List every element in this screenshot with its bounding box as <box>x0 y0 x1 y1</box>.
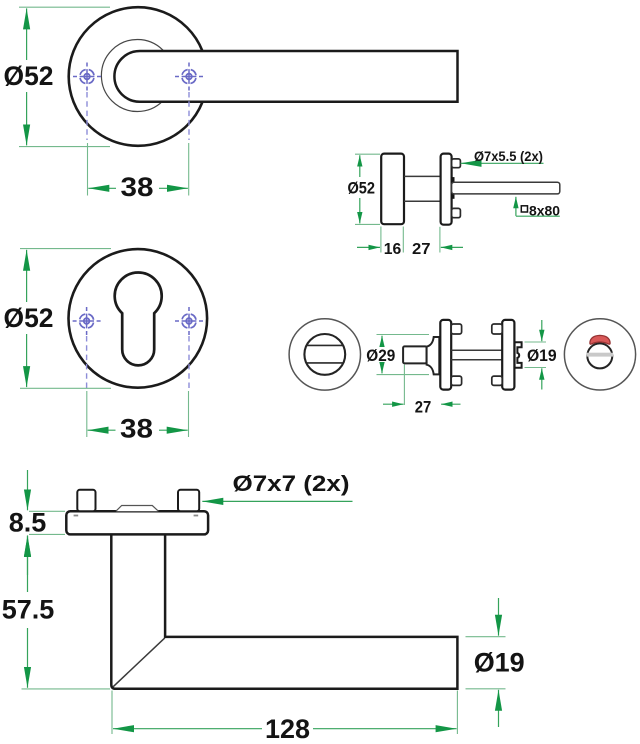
dimension 57.5 arrows <box>27 536 29 592</box>
rose outer circle <box>69 7 208 146</box>
screw mark right (escutcheon) <box>175 307 203 335</box>
svg-text:Ø52: Ø52 <box>347 179 375 197</box>
screw mark right (blue centre symbol) <box>175 63 203 91</box>
dimension Ø52 (view B) extension lines <box>355 153 380 155</box>
dimension 8.5 extension lines <box>29 510 65 512</box>
svg-text:Ø19: Ø19 <box>474 648 525 678</box>
wc rose plate right <box>502 320 514 390</box>
screw boss bottom <box>452 208 461 217</box>
spindle mound <box>116 506 158 512</box>
spindle bar <box>452 182 560 194</box>
handle neck and lever tube <box>111 534 457 689</box>
svg-text:128: 128 <box>265 714 310 744</box>
rose inner collar circle <box>101 40 173 112</box>
dimension 16/27 extension lines <box>380 227 382 253</box>
dimension 128 extension lines <box>111 691 113 735</box>
wc spindle lines <box>451 349 502 351</box>
dimension 27 (wc) extension line <box>403 365 405 406</box>
svg-text:27: 27 <box>412 241 431 258</box>
wc boss top-right plate <box>492 324 502 334</box>
escutcheon outer circle <box>69 249 208 388</box>
leader 8x80 underline <box>516 215 560 217</box>
thumbturn slot lines <box>307 344 343 346</box>
indicator inner circle <box>587 343 612 368</box>
thumbturn outer circle <box>289 319 360 390</box>
wc rose plate left <box>440 320 451 390</box>
dimension 38 (view A) arrows <box>88 187 116 189</box>
svg-text:27: 27 <box>415 398 432 416</box>
svg-text:38: 38 <box>120 414 153 444</box>
indicator grey slot <box>587 353 613 357</box>
blue dashed drop left (escutcheon) <box>86 336 88 388</box>
dimension 27 (wc) arrows <box>383 403 404 405</box>
rose disc side <box>381 154 404 225</box>
dimension 8.5 arrows <box>27 470 29 510</box>
blue dashed drop line left <box>86 92 88 140</box>
dimension 57.5 bottom extension <box>22 688 111 690</box>
screw mark left (escutcheon) <box>73 307 101 335</box>
square symbol <box>521 206 527 212</box>
svg-text:57.5: 57.5 <box>2 595 55 625</box>
dimension 128 arrows <box>113 728 262 730</box>
dimension 27 arrow <box>441 246 463 248</box>
dimension Ø29 extension lines <box>377 334 430 336</box>
indicator outer circle <box>564 319 635 390</box>
dimension 16 arrow <box>357 246 380 248</box>
wc boss bottom-left plate <box>451 376 461 385</box>
dimension Ø19 (wc) extension lines <box>525 341 547 343</box>
boss right (edge view) <box>178 490 199 512</box>
dimension Ø52 (view A) extension lines <box>19 6 110 8</box>
neck lines <box>404 175 441 177</box>
rose plate (edge view) <box>66 511 208 534</box>
thumbturn grip (side) <box>403 346 427 363</box>
svg-text:38: 38 <box>121 172 154 202</box>
euro profile cylinder hole <box>115 272 162 365</box>
svg-text:8x80: 8x80 <box>529 202 560 218</box>
dimension Ø52 (view A) arrows <box>26 8 28 60</box>
lever grip (stadium shape) <box>114 51 457 102</box>
svg-text:8.5: 8.5 <box>9 508 47 538</box>
spindle hub dark fill bottom <box>451 193 455 199</box>
plate mark right <box>194 515 199 517</box>
leader Ø7x7 line <box>202 500 352 502</box>
svg-text:Ø52: Ø52 <box>4 303 54 333</box>
svg-text:Ø52: Ø52 <box>4 61 54 91</box>
spindle hub dark fill top <box>451 177 455 183</box>
svg-text:Ø29: Ø29 <box>366 347 395 365</box>
dimension Ø19 (wc) arrows <box>541 320 543 341</box>
dimension Ø52 (view B) arrows <box>359 155 361 177</box>
mounting flange <box>441 154 452 225</box>
dimension Ø19 (lever) extension lines <box>466 636 506 638</box>
indicator red band <box>590 335 610 344</box>
boss left (edge view) <box>77 490 95 512</box>
dimension 38 (view A) extension lines <box>87 143 89 196</box>
plate mark left <box>74 515 79 517</box>
leader 8x80 arrow <box>515 197 517 216</box>
dimension Ø52 (view C) extension lines <box>20 248 111 250</box>
svg-text:Ø7x7 (2x): Ø7x7 (2x) <box>233 471 350 496</box>
dimension 38 (view C) arrows <box>88 429 116 431</box>
svg-text:16: 16 <box>384 241 402 258</box>
emergency release (side) <box>515 342 522 368</box>
dimension 38 (view C) extension lines <box>86 391 88 437</box>
svg-text:Ø7x5.5 (2x): Ø7x5.5 (2x) <box>474 148 543 164</box>
blue dashed drop line right <box>188 92 190 140</box>
thumbturn inner circle <box>304 334 345 375</box>
svg-text:Ø19: Ø19 <box>527 347 557 365</box>
screw boss top <box>452 159 461 168</box>
thumbturn flare (side) <box>427 337 440 374</box>
blue dashed drop right (escutcheon) <box>188 336 190 388</box>
wc boss top-left plate <box>451 324 461 334</box>
mitre seam line <box>113 638 165 687</box>
leader Ø7x5.5 line <box>461 162 544 164</box>
screw mark left (blue centre symbol) <box>73 63 101 91</box>
wc boss bottom-right plate <box>492 376 502 385</box>
dimension Ø52 (view C) arrows <box>26 250 28 302</box>
dimension Ø19 (lever) arrows <box>498 598 500 636</box>
dimension Ø29 arrows <box>381 336 383 347</box>
